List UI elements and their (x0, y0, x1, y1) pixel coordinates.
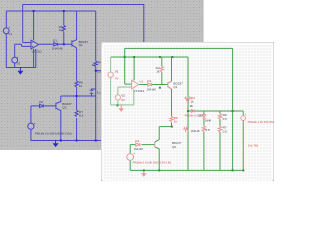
wire top rail (23, 4, 145, 6)
resistor R6 (75, 81, 78, 87)
svg-text:1N4148: 1N4148 (190, 129, 200, 133)
svg-text:Q1: Q1 (79, 43, 83, 47)
svg-text:V1: V1 (8, 32, 12, 36)
voltage source V3w (127, 154, 134, 161)
wire op-amp output white (139, 84, 168, 86)
wire Q1w emitter (168, 87, 172, 117)
svg-text:PWLfile 0 0 1N0 1N0 0N 1V5(): PWLfile 0 0 1N0 1N0 0N 1V5() (35, 131, 72, 135)
voltage source V1 (3, 28, 9, 34)
node dot rail R4 junction (95, 70, 97, 72)
svg-text:V2: V2 (121, 94, 125, 98)
wire minus input white (125, 48, 132, 84)
node dot rail R3w (159, 56, 161, 58)
wire Q2w emitter (155, 147, 159, 171)
svg-text:+: + (8, 25, 10, 29)
voltage source V4w (241, 116, 246, 121)
svg-text:D2: D2 (39, 100, 43, 104)
wire V2 to plus input (15, 44, 31, 46)
node dot rail cross minus w (124, 56, 126, 58)
node dot bottom gnd w (143, 169, 145, 171)
wire plus input white (118, 86, 132, 88)
svg-text:+: + (133, 151, 135, 155)
gray schematic editor window (background, left) (0, 0, 204, 150)
wire R3 branch (63, 11, 65, 44)
wire op-amp bottom pin white (133, 89, 135, 105)
wire Q2w collector riser (155, 127, 159, 142)
svg-text:1k: 1k (156, 70, 160, 74)
svg-text:1Vo 7k0: 1Vo 7k0 (248, 143, 259, 147)
wire V2w top (117, 87, 119, 95)
wire op-amp V- pins down (34, 49, 36, 68)
svg-text:U1: U1 (139, 79, 143, 83)
wire D3w branch (203, 111, 205, 170)
svg-text:Rb: Rb (190, 104, 194, 108)
wire mid bus white (111, 104, 134, 106)
resistor R7w (218, 126, 221, 132)
node dot rail Q1w collector (171, 56, 173, 58)
wire right drop from top rail (143, 5, 145, 43)
svg-text:+: + (34, 121, 36, 125)
wire second rail (6, 10, 95, 12)
svg-text:0.5: 0.5 (223, 129, 228, 133)
wire Q1 emitter to junction (76, 87, 78, 96)
wire V3w top corner (129, 145, 131, 154)
node dot R3 output junction (63, 43, 65, 45)
resistor R7 (75, 110, 78, 116)
wire R3w branch (161, 57, 163, 85)
ground red bottom (142, 170, 146, 176)
svg-text:1k: 1k (92, 63, 96, 67)
wire long right rail mid (95, 67, 97, 141)
wire Q1w emitter lower (171, 122, 173, 126)
resistor R9w (202, 126, 205, 132)
op-amp U1w (132, 80, 139, 89)
wire left branch V1 lower (110, 77, 112, 105)
diode D2 (40, 104, 44, 107)
wire R7 branch (76, 96, 78, 141)
diode D2w (136, 143, 140, 146)
svg-text:Q2: Q2 (172, 145, 176, 149)
wire op-amp output (39, 43, 72, 45)
ground lower (54, 141, 58, 147)
wire Q1 collector (72, 11, 76, 42)
svg-text:0.5: 0.5 (205, 128, 210, 132)
wire left branch V1 upper (110, 57, 112, 72)
node dot rail opamp pin w (133, 56, 135, 58)
svg-text:V1: V1 (115, 69, 119, 73)
diode D1w (148, 83, 152, 86)
node dot bottom bus Q2 emitter (60, 140, 62, 142)
resistor R4 (94, 61, 97, 67)
node dot bottom x232 w (232, 169, 234, 171)
node dot y111 right drop (232, 110, 234, 112)
op-amp U1 (31, 40, 39, 49)
svg-text:PWLfile 1 0V 1N1 0N11: PWLfile 1 0V 1N1 0N11 (248, 120, 274, 124)
voltage source V2w (115, 95, 120, 100)
svg-text:1k: 1k (174, 119, 178, 123)
svg-text:PWLfile 0 0 1N0 1N0 (3.3V 0.5(: PWLfile 0 0 1N0 1N0 (3.3V 0.5() (133, 160, 172, 164)
wire Q1w collector (168, 57, 172, 83)
node dot second rail / R3 (63, 10, 65, 12)
wire V4w lower (242, 121, 244, 171)
wire right bus y111 (188, 110, 243, 112)
svg-text:0.5: 0.5 (79, 113, 84, 117)
transistor Q2 body (55, 103, 57, 109)
wire inverting input drop (23, 5, 31, 43)
wire V2 branch upper (14, 44, 16, 57)
resistor R3 (62, 25, 65, 31)
transistor Q1 body (71, 40, 73, 46)
wire V3 lower (30, 129, 32, 141)
svg-text:1k: 1k (79, 84, 83, 88)
wire junction bus y126 (159, 126, 172, 128)
wire top rail white (125, 47, 233, 49)
node dot emitter junction w (171, 126, 173, 128)
node dot bottom bus R7 (76, 140, 78, 142)
wire V4w upper (242, 111, 244, 116)
node dot emitter mid junction (76, 95, 78, 97)
capacitor C1 (90, 89, 96, 96)
voltage source V1w (108, 72, 113, 77)
svg-text:D1: D1 (147, 79, 151, 83)
diode D1 (54, 43, 58, 46)
svg-text:1N4148: 1N4148 (147, 88, 157, 92)
white schematic editor window (foreground, right) (101, 42, 274, 181)
wire V2w bottom (117, 100, 119, 105)
wire left rail upper segment (5, 11, 7, 28)
svg-text:D1: D1 (53, 39, 57, 43)
svg-text:Q2: Q2 (62, 106, 66, 110)
wire second rail white (111, 56, 188, 58)
resistor R8w horizontal (184, 128, 189, 131)
transistor Q1w body (168, 81, 172, 89)
diode D3w (203, 115, 206, 119)
wire op-amp V+ pin (33, 11, 35, 40)
wire V3 upper (30, 106, 32, 123)
svg-text:V2: V2 (17, 62, 21, 66)
svg-text:LT1012: LT1012 (134, 89, 145, 93)
svg-text:D3: D3 (198, 114, 202, 118)
wire Q2 base (31, 105, 56, 107)
node dot second rail / op-amp pin (33, 10, 35, 12)
diode D4w inline on bus (191, 110, 194, 113)
svg-text:0.5: 0.5 (223, 117, 228, 121)
wire Q2 collector (56, 96, 61, 103)
wire Q2 emitter (56, 108, 61, 140)
resistor R5w (170, 116, 173, 121)
node dot bottom Q2w emitter (158, 169, 160, 171)
svg-text:1N48: 1N48 (205, 118, 212, 122)
svg-text:1N4148: 1N4148 (52, 46, 63, 50)
node dot bottom corner w (242, 169, 244, 171)
node dot mid bus V2w (116, 104, 118, 106)
wire long right rail upper (95, 11, 97, 61)
resistor R3w (160, 66, 163, 72)
wire long rail white (187, 57, 189, 170)
wire Q2w base (130, 144, 155, 146)
svg-text:1k: 1k (59, 28, 63, 32)
wire left rail lower segment (5, 34, 7, 68)
voltage source V3 (28, 123, 34, 129)
resistor R4w (185, 97, 191, 100)
svg-text:+: + (17, 55, 19, 59)
wire bottom bus white (130, 169, 243, 171)
voltage source V2 (12, 57, 18, 63)
wire R6w branch (219, 111, 221, 170)
wire V3w bottom (129, 161, 131, 171)
node dot rail y111 w (187, 110, 189, 112)
wire V2 branch lower (14, 63, 16, 68)
node dot output junction w (159, 87, 161, 89)
wire op-amp top pin white (133, 57, 135, 80)
transistor Q2w body (154, 142, 156, 147)
wire Q1 emitter (72, 45, 76, 81)
svg-text:LT1012: LT1012 (32, 50, 43, 54)
wire mid horizontal (61, 95, 96, 97)
wire bottom bus (31, 140, 102, 142)
node dot bottom bus rail (95, 140, 97, 142)
resistor R6w (218, 114, 221, 119)
ground red mid (119, 105, 123, 111)
wire stub right of junction (96, 70, 102, 72)
svg-text:D2: D2 (135, 139, 139, 143)
svg-text:1k: 1k (190, 100, 194, 104)
wire right drop white (232, 48, 234, 170)
svg-text:Q1: Q1 (173, 85, 177, 89)
ground upper (18, 68, 22, 74)
wire ground bus upper (6, 67, 36, 69)
